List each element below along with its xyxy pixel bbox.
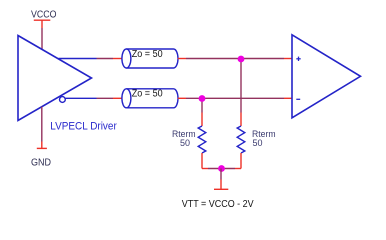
op-amp U1 LVPECL driver triangle [18,36,92,121]
op-amp U2 receiver triangle [292,35,361,118]
svg-text:Zo = 50: Zo = 50 [132,89,163,100]
pin stub R1 bottom [201,153,203,169]
resistor R1 Rterm [198,126,206,153]
pin stub R1 top [201,113,203,127]
wire bottom rail right [235,168,241,170]
svg-text:VCCO: VCCO [31,10,57,21]
wire net T1 to receiver [186,58,284,60]
svg-text:Zo = 50: Zo = 50 [132,49,163,60]
VTT rail symbol [214,180,228,190]
wire driver true output blue [59,58,97,60]
resistor R2 Rterm [237,126,245,153]
wire net to T1 [97,58,114,60]
pin stub R2 bottom [240,153,242,169]
pin stub receiver plus [284,58,292,60]
pin label minus [296,98,300,100]
inverted output bubble [60,97,66,103]
pin stub T1 right [178,58,186,60]
node C junction dot [218,165,225,172]
ground wire [41,107,43,142]
pin stub R2 top [240,113,242,127]
pin label plus [296,57,300,61]
node B junction dot [199,95,206,102]
power symbol VCCO [34,20,51,28]
node A junction dot [238,56,245,63]
wire net to T2 [97,97,114,99]
wire vertical from node B to R1 [201,99,203,113]
pin stub T2 right [178,97,186,99]
svg-text:VTT = VCCO - 2V: VTT = VCCO - 2V [182,199,254,210]
pin stub T2 left [113,97,122,99]
wire vertical from node A to R2 [240,59,242,113]
wire VCCO to driver [41,28,43,50]
wire net T2 to receiver [186,97,284,99]
transmission line T1 cylinder [122,49,178,68]
wire bottom rail left [202,168,208,170]
svg-text:50: 50 [180,138,190,148]
transmission line T2 cylinder [122,89,178,108]
pin stub receiver minus [284,97,292,99]
wire driver inverted output blue [65,97,96,99]
svg-text:LVPECL Driver: LVPECL Driver [50,121,117,133]
ground [37,142,47,149]
svg-text:50: 50 [253,138,263,148]
svg-text:GND: GND [31,158,51,169]
wire node C down [220,169,222,180]
wire bottom rail middle [208,168,235,170]
pin stub T1 left [113,58,122,60]
